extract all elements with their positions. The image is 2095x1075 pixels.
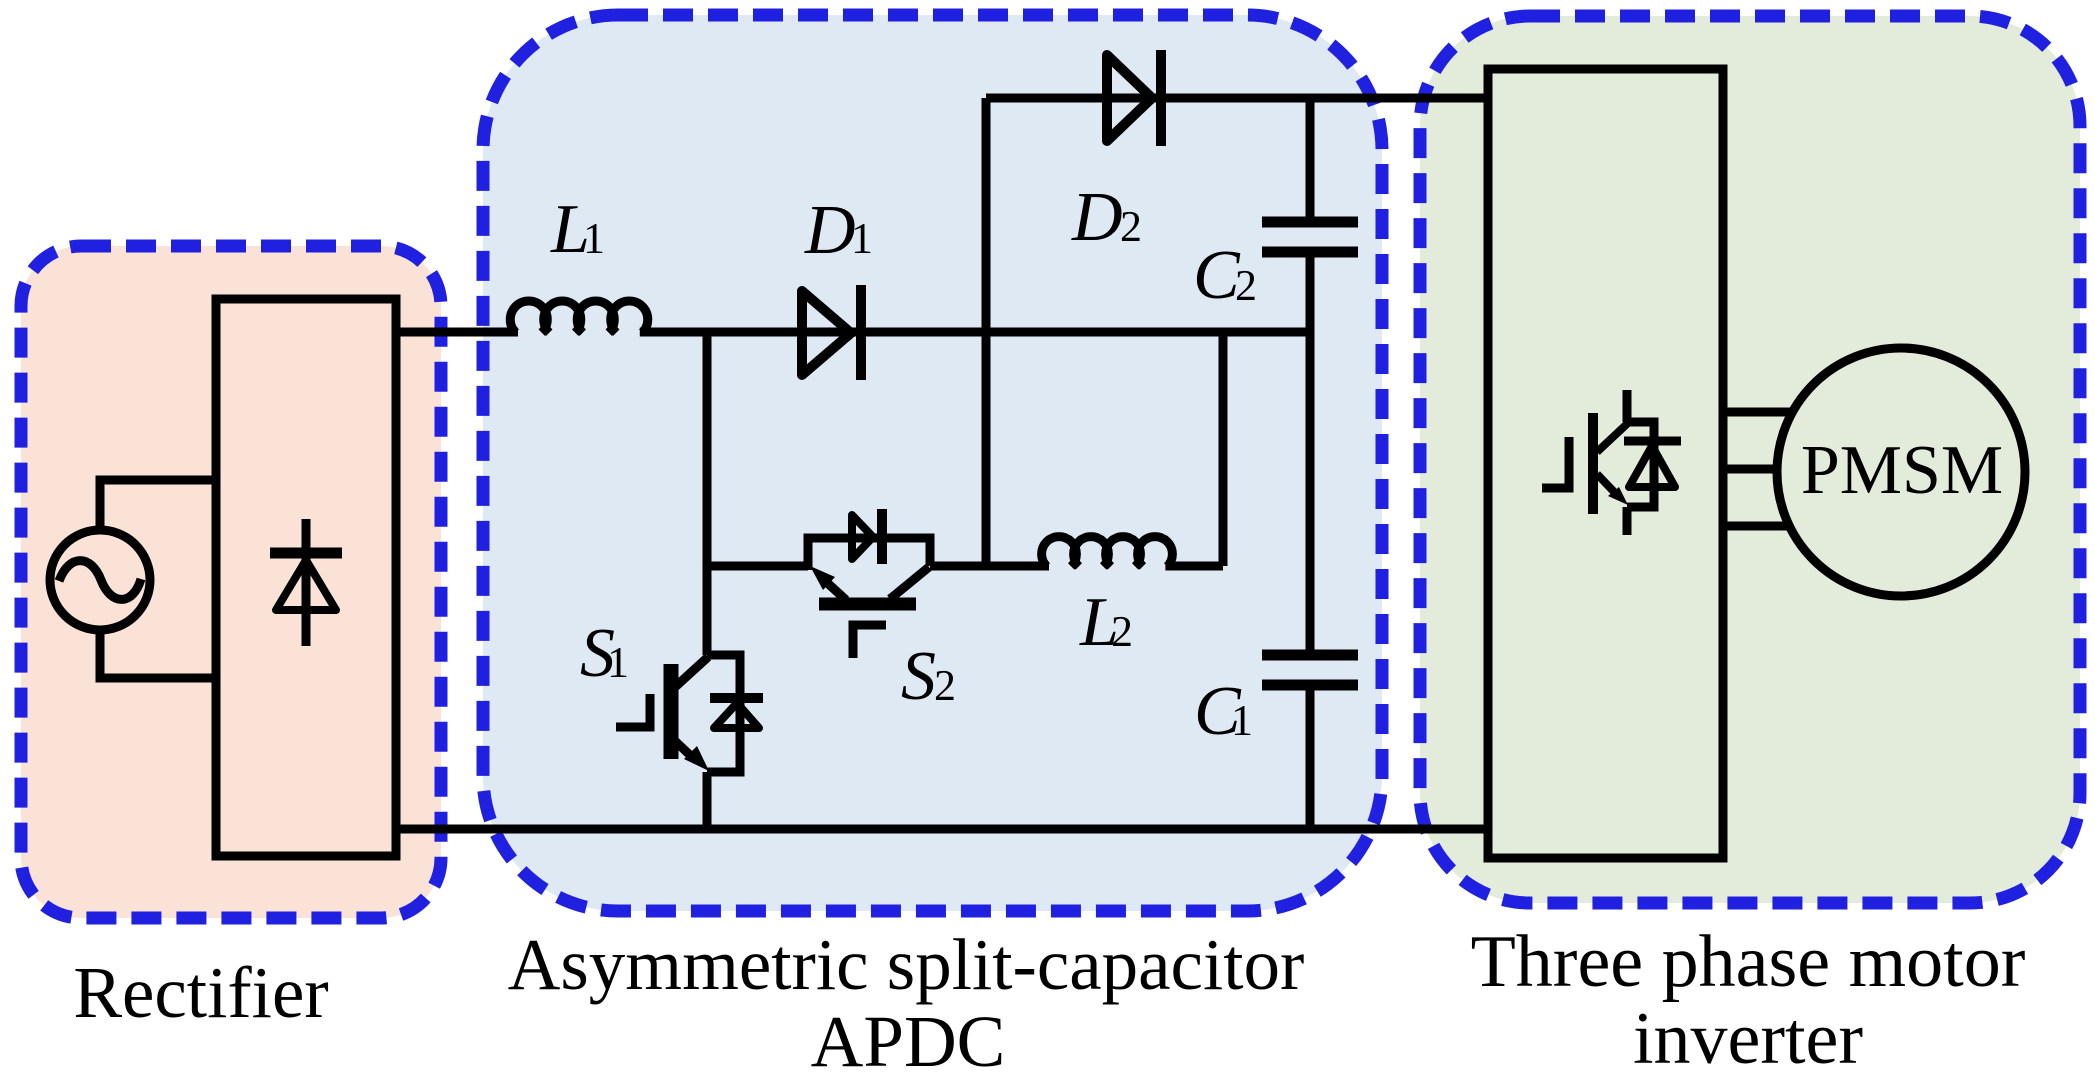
wire AC top to rectifier	[100, 480, 216, 527]
transistor S2 with antiparallel diode	[808, 509, 930, 658]
svg-text:L: L	[550, 191, 590, 268]
wire C2 to C1 vertical	[1306, 257, 1315, 650]
capacitor C2	[1262, 98, 1358, 252]
wire bottom bus	[396, 825, 1488, 834]
wire AC bottom to rectifier	[100, 633, 216, 678]
wire phase A	[1723, 408, 1790, 417]
svg-text:Rectifier: Rectifier	[73, 952, 328, 1033]
rectifier box	[216, 299, 396, 856]
transistor S1 with antiparallel diode	[616, 655, 763, 772]
diode D2	[1107, 50, 1161, 146]
svg-text:S: S	[580, 615, 615, 692]
svg-text:APDC: APDC	[811, 1001, 1006, 1075]
svg-text:PMSM: PMSM	[1801, 432, 2003, 509]
inverter box	[1488, 69, 1723, 858]
rectifier block panel (pink dashed)	[21, 246, 441, 918]
svg-text:D: D	[1071, 179, 1123, 256]
APDC block panel (blue dashed)	[483, 15, 1382, 911]
wire S1 emitter to bottom bus	[703, 772, 712, 829]
svg-text:D: D	[804, 192, 856, 269]
wire node A vertical (main bus to S1)	[703, 332, 712, 655]
inductor L2 (with wire from S2)	[930, 537, 1223, 567]
svg-text:Asymmetric split-capacitor: Asymmetric split-capacitor	[508, 924, 1305, 1005]
AC source V1	[50, 530, 150, 630]
svg-text:S: S	[901, 638, 936, 715]
wire top bus to inverter	[986, 94, 1488, 103]
svg-text:L: L	[1079, 584, 1119, 661]
diode D1	[802, 285, 861, 380]
svg-text:inverter: inverter	[1633, 998, 1863, 1075]
svg-text:C: C	[1193, 237, 1241, 314]
motor PMSM M1	[1777, 348, 2025, 596]
wire phase C	[1723, 522, 1788, 531]
capacitor C1	[1262, 655, 1358, 685]
svg-text:Three phase motor: Three phase motor	[1471, 921, 2026, 1003]
wire phase B	[1723, 465, 1776, 474]
wire L2 riser to main bus	[1219, 332, 1228, 566]
rectifier diode symbol	[270, 519, 342, 646]
inverter IGBT symbol U1	[1542, 390, 1681, 535]
wire main DC bus with inductor L1	[396, 301, 1310, 333]
wire C1 to bottom bus	[1306, 690, 1315, 829]
wire S2 branch left	[707, 562, 808, 571]
wire D2 branch vertical	[982, 98, 991, 566]
inverter block panel (green dashed)	[1420, 16, 2080, 903]
svg-text:C: C	[1194, 673, 1242, 750]
